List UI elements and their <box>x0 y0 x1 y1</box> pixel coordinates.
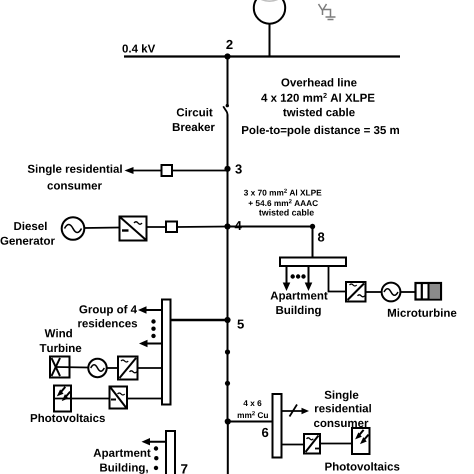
node 8 <box>310 224 325 242</box>
wire: generator to converter <box>107 367 118 369</box>
node 6 <box>225 418 269 437</box>
fused line with arrow to consumer <box>282 405 310 417</box>
wire: busbar 8 to microturbine converter <box>329 266 347 292</box>
generator (microturbine) <box>382 283 401 302</box>
wire: WT box to generator <box>56 366 89 369</box>
fuse F3 <box>166 222 177 233</box>
converter DC/AC (PV 1) <box>110 387 128 409</box>
wire: feeder node 6 to bottom edge <box>227 422 229 474</box>
generator (wind) <box>88 359 106 377</box>
node 3 <box>224 164 241 173</box>
wire: PV to converter <box>71 398 110 400</box>
circuit breaker CB1 <box>223 104 229 116</box>
wire: generator to turbine <box>401 291 417 293</box>
wire with arrowhead to consumer <box>125 167 162 174</box>
label Wind Turbine <box>40 329 82 352</box>
microturbine prime mover <box>416 283 442 300</box>
load arrow group of 4 residences <box>138 306 162 313</box>
label 4x6 mm2 Cu <box>238 400 268 418</box>
transformer T1 upper winding (clipped remnant) <box>262 0 278 1</box>
node 2 <box>224 40 232 60</box>
label Diesel Generator <box>1 222 55 245</box>
label overhead line spec <box>242 78 399 136</box>
label Photovoltaics (left) <box>31 414 105 422</box>
node 5 <box>224 317 244 329</box>
wire: converter to PV panel 2 <box>320 443 352 445</box>
PV panel 2 <box>352 428 370 454</box>
generator G1 (diesel) <box>62 217 85 240</box>
load arrow 2 (apartment building) <box>305 266 313 291</box>
label 3x70 cable spec <box>244 189 322 216</box>
converter DC/AC (PV 2) <box>304 434 320 454</box>
label Group of 4 residences <box>78 305 137 327</box>
wire: node 5 to busbar 5 <box>171 319 228 321</box>
PV panel 1 <box>54 386 71 412</box>
converter AC/AC (microturbine) <box>346 282 366 302</box>
node 4 <box>224 221 241 230</box>
converter AC/DC (diesel) <box>120 217 147 241</box>
busbar node 5 <box>162 300 171 405</box>
pole node (unlabelled) <box>225 381 230 386</box>
wind turbine WT (box with X) <box>50 357 70 378</box>
wire: node 4 to node 8 branch <box>228 226 313 228</box>
fuse F1 <box>162 165 173 176</box>
wire: converter to busbar 5 <box>127 398 162 400</box>
transformer T1 lower winding <box>254 0 285 24</box>
busbar node 6 <box>273 394 282 458</box>
wire: node 8 down to busbar <box>312 227 314 259</box>
wire: feeder node 4 to node 5 <box>227 227 229 320</box>
wire: feeder breaker to node 3 <box>227 115 229 171</box>
wire: generator to converter <box>85 227 120 230</box>
load arrow (apartment building node 7) <box>142 438 167 445</box>
load label: single residential consumer (node 3) <box>28 165 122 190</box>
wire: 0.4 kV LV bus <box>124 55 400 57</box>
label single residential consumer (node 6) <box>314 391 371 428</box>
label Apartment Building (node 8) <box>271 292 328 317</box>
wire: busbar 6 to PV converter <box>282 444 305 446</box>
converter AC/AC (wind) <box>118 357 138 380</box>
wire: converter to generator <box>366 291 382 293</box>
ellipsis dots (vertical, node 7) <box>154 446 159 470</box>
wire: transformer to LV bus <box>269 23 271 57</box>
wire: converter to busbar 5 <box>138 367 163 369</box>
wire: feeder node 5 to node 6 <box>227 320 229 422</box>
busbar node 8 <box>280 258 346 267</box>
label Microturbine <box>388 309 457 317</box>
ellipsis dots (vertical) <box>151 319 155 338</box>
label Apartment Building (node 7) <box>94 449 151 474</box>
label 0.4 kV <box>123 44 156 52</box>
wire: node 6 to busbar 6 <box>228 421 273 423</box>
busbar node 7 <box>166 431 175 474</box>
load arrow 2 on busbar 5 <box>139 340 162 347</box>
load arrow 1 (apartment building) <box>283 266 291 291</box>
wire: node 3 to fuse <box>172 170 228 172</box>
ellipsis dots <box>291 274 306 278</box>
label Photovoltaics (right) <box>325 462 399 470</box>
wire: feeder node 3 to node 4 <box>227 169 229 226</box>
wire: fuse to node 4 <box>177 226 228 229</box>
pole node (unlabelled) <box>225 349 230 354</box>
label Circuit Breaker <box>173 108 215 131</box>
label node 7 <box>181 464 187 473</box>
wire: converter to fuse <box>147 226 167 228</box>
wire: feeder node 2 to breaker <box>227 57 229 104</box>
grounded-wye symbol Yn <box>319 4 336 20</box>
